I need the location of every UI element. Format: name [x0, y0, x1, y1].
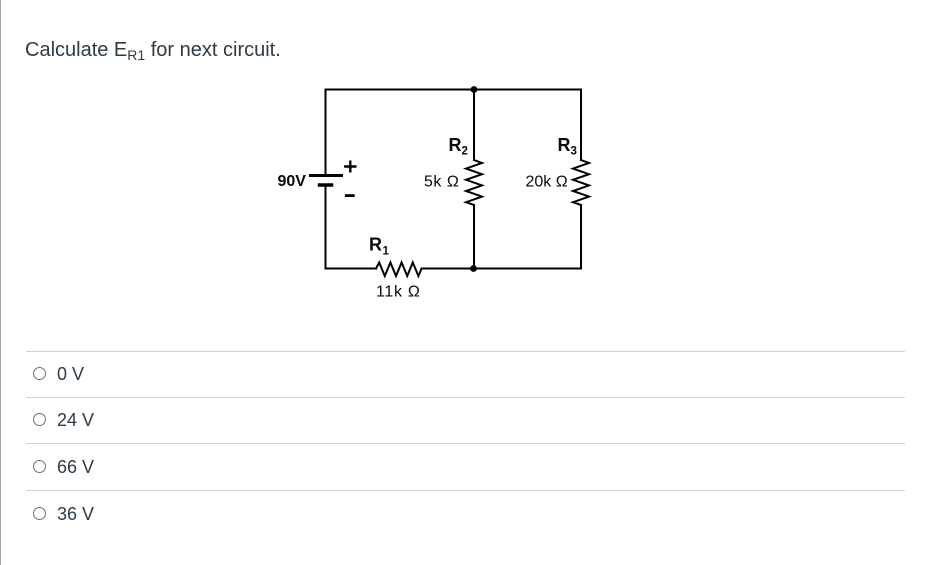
- svg-text:R: R: [449, 135, 462, 155]
- svg-text:90V: 90V: [278, 173, 307, 190]
- option radio 66 V: [33, 460, 46, 473]
- option radio 0 V: [33, 367, 46, 380]
- wire: right vertical upper: [580, 90, 582, 161]
- wire: left vertical upper (to battery + plate): [325, 90, 327, 175]
- wire: middle vertical lower: [473, 205, 475, 269]
- battery + sign: [345, 162, 355, 172]
- question title: [25, 39, 281, 62]
- wire: middle vertical upper: [473, 90, 475, 161]
- wire: bottom right segment: [422, 268, 581, 270]
- node junction dot bottom: [470, 265, 477, 272]
- svg-text:1: 1: [383, 245, 390, 257]
- left page border: [0, 0, 1, 565]
- battery - sign: [346, 194, 353, 197]
- svg-text:2: 2: [462, 146, 468, 158]
- resistor R1 zigzag: [376, 263, 422, 277]
- wire: left vertical lower (battery - to bottom wire): [325, 187, 327, 269]
- resistor R2 zigzag: [466, 160, 482, 205]
- answer dividers: [26, 351, 905, 352]
- battery BT1 90V long plate (+): [311, 174, 342, 177]
- option radio 36 V: [33, 507, 46, 520]
- svg-text:R: R: [558, 135, 571, 155]
- option radio 24 V: [33, 413, 46, 426]
- wire: top horizontal: [326, 89, 582, 91]
- wire: right vertical lower: [580, 205, 582, 269]
- resistor R3 zigzag: [573, 160, 589, 205]
- svg-text:20k Ω: 20k Ω: [526, 174, 568, 191]
- battery BT1 90V short plate (-): [320, 183, 332, 187]
- svg-text:11k Ω: 11k Ω: [376, 284, 421, 301]
- wire: bottom left segment: [326, 268, 377, 270]
- node junction dot top: [471, 86, 478, 93]
- svg-text:5k Ω: 5k Ω: [424, 174, 459, 191]
- svg-text:3: 3: [571, 146, 577, 158]
- svg-text:R: R: [369, 235, 382, 255]
